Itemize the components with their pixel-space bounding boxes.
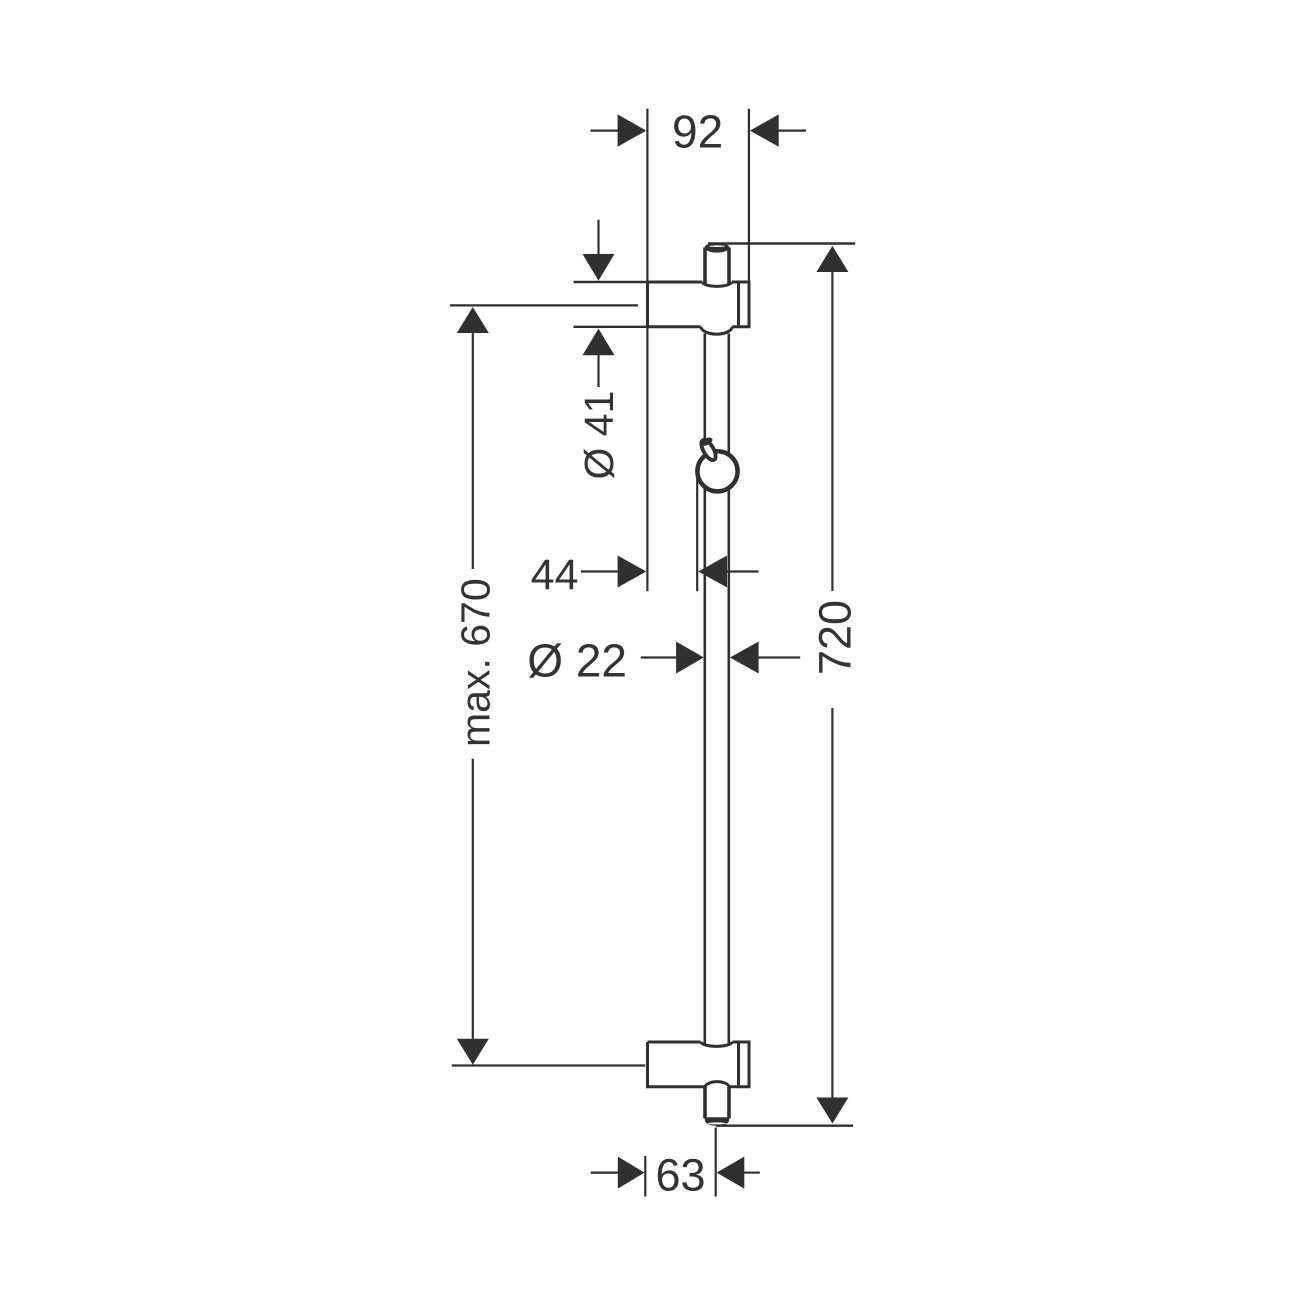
dimension 92 left arrow [591,130,619,132]
dimension 41 up arrow [583,329,615,356]
svg-text:max. 670: max. 670 [453,578,499,747]
rail tube left edge [703,334,706,1045]
dimension 41 extension line bottom [574,326,648,328]
dimension max 670 line upper segment [472,331,474,569]
dimension 44 right arrow [698,556,727,588]
svg-text:720: 720 [810,600,861,675]
dimension max 670 down arrow [457,1039,489,1065]
dimension max 670 extension line bottom [452,1064,646,1066]
bottom pin arch [705,1082,729,1088]
dimension 22 left arrow [641,656,677,658]
bottom wall bracket cap separation line [737,1044,740,1086]
top pin cylinder cap [705,243,730,253]
svg-text:44: 44 [531,551,579,599]
dimension 63 right arrow [717,1157,745,1189]
dimension 63 extension line right [715,1128,717,1197]
bottom wall bracket outline [648,1041,701,1044]
dimension 92 extension line left [646,109,648,592]
dimension 63 left arrow [591,1171,619,1173]
rail tube right edge [727,334,730,1045]
dimension 720 down arrow [816,1098,848,1124]
bottom pin sides [703,1087,707,1119]
svg-text:63: 63 [655,1150,705,1201]
dimension 720 line upper segment [831,271,833,591]
dimension 44 left arrow [581,570,619,572]
svg-text:92: 92 [672,106,723,158]
dimension max 670 extension line top [450,304,638,306]
dimension 41 extension line top [574,281,648,283]
top pin cylinder sides [703,248,707,285]
dimension 44 extension line (slider tangent) [696,477,698,591]
dimension 720 extension line bottom [716,1124,853,1126]
top wall bracket outline [648,281,703,284]
svg-text:Ø 22: Ø 22 [527,635,627,687]
dimension max 670 line lower segment [472,759,474,1039]
dimension 720 line lower segment [831,708,833,1099]
dimension 92 right arrow [778,130,806,132]
dimension 92 extension line right [748,109,750,283]
slider ring [697,451,737,491]
svg-text:Ø 41: Ø 41 [576,391,622,480]
dimension 41 down arrow [597,220,599,255]
dimension 22 right arrow [730,642,759,674]
dimension 63 extension line left [644,1156,646,1197]
dimension 720 up arrow [816,246,848,272]
dimension max 670 up arrow [457,307,489,333]
top wall bracket cap separation line [737,284,740,326]
bottom pin cap [705,1117,729,1125]
dimension 720 extension line top [708,242,855,244]
slider clip [699,438,719,463]
